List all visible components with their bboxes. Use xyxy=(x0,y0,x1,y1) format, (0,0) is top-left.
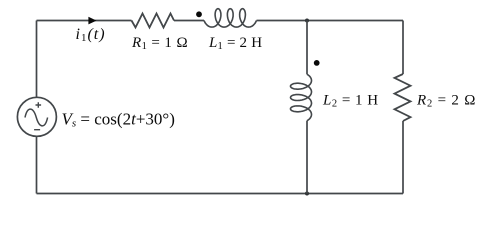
source plus sign xyxy=(36,102,42,108)
wire right vertical lower xyxy=(402,121,404,194)
svg-text:R2 = 2 Ω: R2 = 2 Ω xyxy=(416,92,476,109)
dot polarity L2 xyxy=(314,60,320,66)
wire middle vertical upper xyxy=(306,21,308,75)
resistor R2 xyxy=(395,74,411,121)
svg-text:L1 = 2 H: L1 = 2 H xyxy=(208,35,262,52)
inductor L1 xyxy=(204,9,257,27)
wire bottom xyxy=(37,193,404,195)
wire L1 to top-right corner xyxy=(257,20,404,22)
dot polarity L1 xyxy=(196,11,202,17)
resistor R1 xyxy=(132,14,175,28)
wire right vertical upper xyxy=(402,21,404,75)
svg-text:L2 = 1 H: L2 = 1 H xyxy=(322,92,379,109)
node junction top xyxy=(305,19,309,23)
svg-text:R1 = 1 Ω: R1 = 1 Ω xyxy=(131,35,188,52)
source V_s circle xyxy=(17,97,56,136)
inductor L2 xyxy=(291,74,312,120)
source minus sign xyxy=(34,129,40,131)
source sine wave xyxy=(25,109,48,126)
wire left vertical lower xyxy=(36,136,38,193)
current arrow i1 xyxy=(88,17,96,25)
wire top-left segment xyxy=(37,20,132,22)
wire R1 to L1 xyxy=(174,20,204,22)
node junction bottom xyxy=(305,192,309,196)
wire middle vertical lower xyxy=(306,121,308,194)
wire left vertical upper xyxy=(36,21,38,98)
svg-text:i1(t): i1(t) xyxy=(76,26,106,44)
svg-text:Vs = cos(2t+30°): Vs = cos(2t+30°) xyxy=(62,110,175,130)
